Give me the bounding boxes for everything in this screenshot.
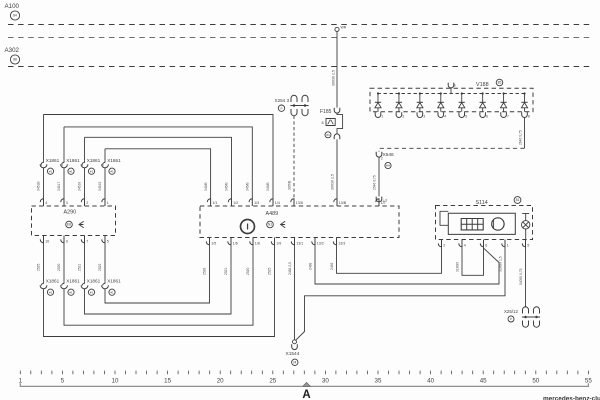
svg-text:#1: #1 [49, 169, 53, 173]
svg-text:#1: #1 [69, 169, 73, 173]
pin 13/1 bottom of A489 [291, 238, 294, 245]
svg-text:#1: #1 [110, 290, 114, 294]
bus wire A100 line 2 [8, 37, 591, 39]
connector X254/3 pair 1 [291, 95, 297, 102]
wire from S114 pin 4 to X1544 [296, 246, 505, 341]
switch S114 rotary symbol [492, 218, 504, 230]
svg-text:8: 8 [454, 83, 456, 87]
svg-text:2498: 2498 [309, 262, 313, 270]
pin 1/4 top of A489 [270, 199, 273, 206]
svg-text:2: 2 [86, 201, 88, 205]
svg-text:A290: A290 [64, 210, 77, 216]
svg-text:1/1: 1/1 [212, 201, 217, 205]
wire 2546 0,75 from X546 to A489 pin L/7 [378, 157, 380, 196]
svg-text:1/4: 1/4 [275, 201, 280, 205]
pin 1/8 bottom of A489 [250, 238, 253, 245]
connector X1861 #4 top row symbol circle [109, 168, 115, 174]
svg-text:45: 45 [480, 378, 487, 385]
svg-text:F185: F185 [320, 109, 332, 115]
svg-text:2646 0,75: 2646 0,75 [519, 130, 523, 145]
wire 2489 from A489 pin 13/3 to S114 pin 1 [337, 245, 442, 273]
diode block V188 pin 8 stub up [448, 83, 454, 88]
diode V188 element 3 [419, 92, 421, 94]
wire 2488 2,5 from A489 pin 13/1 to X1544 [294, 245, 296, 340]
svg-text:9: 9 [66, 239, 68, 243]
control unit A290 branch arrow [79, 221, 84, 227]
pin 2 bottom of S114 [438, 240, 441, 247]
svg-text:31M90: 31M90 [456, 262, 460, 272]
switch S114 box [436, 206, 533, 240]
pin 13/2 bottom of A489 [312, 238, 315, 245]
diode V188 pin hook 7 [501, 112, 507, 117]
pin 5 bottom of A290 [102, 236, 105, 243]
svg-text:13/3: 13/3 [338, 241, 345, 245]
svg-text:1: 1 [381, 115, 383, 119]
pin 6 bottom of S114 [480, 240, 483, 247]
svg-text:5: 5 [527, 243, 529, 247]
wire 54050 0,75 from S114 pin 5 to X25/12 [525, 246, 527, 308]
svg-text:13/B: 13/B [339, 201, 347, 205]
svg-text:X1861: X1861 [87, 158, 101, 163]
svg-text:10: 10 [45, 239, 49, 243]
pin 1/6 bottom of A489 [228, 238, 231, 245]
wire from A290 pin 7 to X1861 bottom row 3 [84, 243, 86, 282]
connector X1861 #4 bottom row symbol circle [109, 289, 115, 295]
pin 1/2 top of A489 [228, 199, 231, 206]
svg-text:5: 5 [107, 239, 109, 243]
wire bridge S114 pin 2 to pin 3 [462, 246, 484, 276]
svg-text:X1861: X1861 [66, 278, 80, 283]
svg-text:mercedes-benz-club.com: mercedes-benz-club.com [543, 396, 600, 400]
control unit A290 symbol circle [66, 221, 73, 228]
diode V188 pin hook 5 [459, 112, 465, 117]
pin 13/B top of A489 [334, 199, 337, 206]
connector X254/3 pair 2 [302, 95, 308, 102]
svg-text:7: 7 [86, 239, 88, 243]
fuse F185 body [326, 119, 335, 126]
bus wire A100 line 1 [8, 24, 591, 26]
diode V188 pin hook 4 [438, 112, 444, 117]
svg-text:2546 0,75: 2546 0,75 [373, 175, 377, 190]
wire joining X25/12 pairs [526, 316, 537, 318]
svg-text:50: 50 [532, 378, 539, 385]
svg-text:1/5: 1/5 [211, 241, 216, 245]
control unit A489 box [200, 206, 399, 238]
svg-text:X1861: X1861 [46, 158, 60, 163]
svg-text:2: 2 [402, 115, 404, 119]
control unit A290 box [32, 206, 116, 236]
ruler scale [20, 371, 588, 375]
diode V188 element 4 [440, 92, 442, 94]
svg-text:L/7: L/7 [381, 201, 386, 205]
wire from A290 pin 5 to X1861 bottom row 4 [104, 243, 106, 282]
control unit A489 symbol circle [267, 221, 274, 228]
pin 4 top of A290 [40, 199, 43, 206]
svg-text:10: 10 [112, 378, 119, 385]
svg-text:N1: N1 [268, 223, 272, 227]
svg-text:1/6: 1/6 [233, 241, 238, 245]
pin 1/5 bottom of A489 [206, 238, 209, 245]
svg-text:M4: M4 [386, 164, 390, 168]
svg-text:1/2: 1/2 [233, 201, 238, 205]
svg-text:2528: 2528 [203, 267, 207, 275]
fuse F185 symbol circle [325, 132, 331, 138]
svg-text:88: 88 [13, 58, 17, 62]
fuse F185 terminal bracket [337, 113, 343, 133]
pin 1 top of A290 [102, 199, 105, 206]
svg-text:4: 4 [444, 115, 446, 119]
svg-text:5: 5 [61, 378, 65, 385]
diode block V188 box [370, 88, 533, 111]
svg-text:A302: A302 [5, 47, 20, 54]
svg-text:X1861: X1861 [107, 158, 121, 163]
diode V188 element 2 [398, 92, 400, 94]
svg-text:A489: A489 [266, 211, 279, 217]
svg-text:2521: 2521 [78, 263, 82, 271]
node tap on circuit 30 bus [335, 27, 339, 31]
svg-text:X1861: X1861 [107, 278, 121, 283]
svg-text:#1: #1 [49, 290, 53, 294]
svg-text:84: 84 [13, 14, 17, 18]
connector X1861 #1 bottom row symbol circle [47, 289, 53, 295]
pin 1/3 top of A489 [249, 199, 252, 206]
svg-text:1/3: 1/3 [254, 201, 259, 205]
connector X1544 symbol circle [292, 359, 298, 365]
wire from A290 pin 9 to X1861 bottom row 2 [63, 243, 65, 282]
svg-text:2525: 2525 [37, 263, 41, 271]
wire 2498 from A489 pin 13/2 to S114 pin 3 [315, 245, 499, 284]
connector X254/3 symbol circle [278, 105, 284, 111]
svg-text:#1: #1 [69, 290, 73, 294]
svg-text:2522: 2522 [98, 263, 102, 271]
svg-text:2488 2,5: 2488 2,5 [288, 262, 292, 275]
svg-text:34518: 34518 [78, 182, 82, 191]
connector X1544 [292, 344, 298, 349]
svg-text:15: 15 [164, 378, 171, 385]
svg-text:1/8: 1/8 [255, 241, 260, 245]
connector X25/12 symbol circle [508, 316, 514, 322]
diode V188 pin hook 1 [375, 112, 381, 117]
lamp symbol in S114 [522, 213, 529, 215]
svg-text:A100: A100 [5, 3, 20, 10]
wire 34515 into A290 pin 1 [104, 169, 106, 199]
switch S114 symbol circle [514, 197, 521, 204]
svg-text:6: 6 [486, 115, 488, 119]
wire loop top 3 (A290 pin 2 to A489 pin 1/2) [84, 137, 86, 161]
svg-text:I: I [246, 222, 248, 232]
pin 1/1 top of A489 [207, 199, 210, 206]
pin 4 bottom of S114 [459, 240, 462, 247]
svg-text:X1861: X1861 [46, 278, 60, 283]
wire 30030 2,5 from fuse F185 to A489 pin 13/B [336, 139, 338, 198]
svg-text:#1: #1 [110, 169, 114, 173]
wire from A290 pin 10 to X1861 bottom row 1 [43, 243, 45, 282]
wire dashed link V188 to X546 [379, 148, 525, 151]
diode V188 pin hook 2 [396, 112, 402, 117]
connector X546 symbol circle [385, 162, 391, 168]
svg-text:2530: 2530 [57, 263, 61, 271]
svg-text:305/B: 305/B [288, 180, 292, 190]
svg-text:1: 1 [107, 201, 109, 205]
svg-text:1: 1 [507, 243, 509, 247]
pin 5 bottom of S114 [522, 240, 525, 247]
diode V188 pin hook 6 [480, 112, 486, 117]
svg-text:X546: X546 [383, 152, 395, 158]
svg-text:34517: 34517 [57, 182, 61, 191]
connector X1861 #2 top row symbol circle [68, 168, 74, 174]
wire loop top 4 (A290 pin 1 to A489 pin 1/1) [104, 149, 106, 161]
svg-text:85: 85 [498, 81, 502, 85]
pin 7 bottom of A290 [81, 236, 84, 243]
svg-text:13/8: 13/8 [296, 201, 303, 205]
svg-text:345/B: 345/B [266, 182, 270, 191]
connector X25/12 pair 1 [523, 307, 529, 314]
ruler marker A notch [303, 382, 310, 386]
wire joining X254/3 pairs [294, 105, 305, 107]
svg-text:2520: 2520 [246, 267, 250, 275]
svg-text:35: 35 [375, 378, 382, 385]
node A100 symbol [10, 11, 19, 20]
bus wire A302 line [8, 66, 591, 68]
pin 10 bottom of A290 [40, 236, 43, 243]
control unit A489 branch arrow [281, 221, 286, 227]
connector X1861 #3 top row symbol circle [88, 168, 94, 174]
svg-text:30: 30 [322, 378, 329, 385]
svg-text:84: 84 [326, 133, 330, 137]
switch S114 keypad symbol [461, 219, 483, 230]
pin 1/9 bottom of A489 [271, 238, 274, 245]
pin L/7 top of A489 [376, 199, 379, 206]
connector X546 [376, 152, 382, 157]
svg-text:20: 20 [217, 378, 224, 385]
diode V188 element 8 [523, 92, 525, 94]
connector hook above fuse F185 [334, 108, 340, 113]
svg-text:E8: E8 [67, 223, 71, 227]
diode V188 element 6 [482, 92, 484, 94]
svg-text:2: 2 [443, 243, 445, 247]
wire 2646 0,75 from V188 pin 8 [524, 118, 526, 149]
svg-text:WR: WR [341, 26, 347, 30]
svg-text:P: P [510, 317, 512, 321]
pin 13/3 bottom of A489 [333, 238, 336, 245]
svg-text:40: 40 [427, 378, 434, 385]
svg-text:3451B: 3451B [37, 181, 41, 191]
svg-text:345/B: 345/B [246, 182, 250, 191]
svg-text:13/2: 13/2 [317, 241, 324, 245]
svg-text:S114: S114 [476, 200, 488, 206]
svg-text:1/9: 1/9 [276, 241, 281, 245]
wire 34518 into A290 pin 2 [84, 169, 86, 199]
diode V188 element 7 [502, 92, 504, 94]
switch S114 body [448, 213, 515, 234]
svg-text:X25/12: X25/12 [504, 309, 518, 314]
wire loop bottom 3 to A489 pin 1/6 [85, 245, 232, 314]
diode V188 pin hook 3 [417, 112, 423, 117]
wire 30030 2,5 from bus to fuse F185 [336, 32, 338, 108]
svg-text:54050 0,75: 54050 0,75 [519, 268, 523, 285]
svg-text:X1861: X1861 [87, 278, 101, 283]
svg-text:30030 2,5: 30030 2,5 [331, 174, 335, 190]
svg-text:30030 2,5: 30030 2,5 [332, 70, 336, 86]
wire 34517 into A290 pin 3 [63, 169, 65, 199]
svg-text:#1: #1 [90, 169, 94, 173]
svg-text:2: 2 [381, 157, 383, 161]
connector X1861 #1 top row symbol circle [47, 168, 53, 174]
wire loop top 2 (A290 pin 3 to A489 pin 1/3) [63, 127, 65, 161]
connector X25/12 pair 2 [534, 307, 540, 314]
control unit A489 variant circle I [241, 220, 255, 234]
ruler baseline [20, 383, 588, 386]
svg-text:25: 25 [269, 378, 276, 385]
svg-text:5: 5 [465, 115, 467, 119]
diode block V188 internal bus [378, 93, 525, 95]
svg-text:345/B: 345/B [204, 182, 208, 191]
pin 13/8 top of A489 [291, 199, 294, 206]
pin 9 bottom of A290 [61, 236, 64, 243]
svg-text:3: 3 [423, 115, 425, 119]
svg-text:X254 3: X254 3 [275, 98, 290, 103]
svg-text:X1544: X1544 [286, 351, 300, 357]
wire loop top 1 (A290 pin 4 to A489 pin 1/4) [43, 115, 45, 161]
svg-text:81: 81 [516, 198, 520, 202]
svg-text:P: P [280, 106, 282, 110]
wire loop bottom 2 to A489 pin 1/8 [64, 245, 253, 325]
svg-text:345/B: 345/B [225, 182, 229, 191]
connector X1861 #2 bottom row symbol circle [68, 289, 74, 295]
svg-text:A: A [302, 389, 310, 400]
pin 1 bottom of S114 [502, 240, 505, 247]
wire 3451B into A290 pin 4 [43, 169, 45, 199]
svg-text:34515: 34515 [98, 182, 102, 191]
diode V188 element 5 [461, 92, 463, 94]
svg-text:4: 4 [464, 243, 466, 247]
svg-text:4: 4 [45, 201, 47, 205]
connector L/7 on wire [376, 197, 382, 202]
svg-text:13/1: 13/1 [296, 241, 303, 245]
svg-text:2525: 2525 [268, 267, 272, 275]
wire loop bottom 4 to A489 pin 1/5 [105, 245, 210, 303]
svg-text:7: 7 [507, 115, 509, 119]
diode block V188 symbol circle [496, 79, 503, 86]
svg-text:2489: 2489 [330, 262, 334, 270]
node A302 symbol [10, 55, 19, 64]
svg-text:M: M [293, 361, 296, 365]
connector X1861 #3 bottom row symbol circle [88, 289, 94, 295]
svg-text:8: 8 [322, 121, 324, 125]
pin 2 top of A290 [81, 199, 84, 206]
svg-text:8: 8 [528, 115, 530, 119]
wire dashed from X254/3 to A489 pin 13/8 [293, 116, 295, 199]
svg-text:2521: 2521 [224, 267, 228, 275]
connector hook below fuse F185 [334, 134, 340, 139]
node X1544 junction [293, 340, 297, 344]
svg-text:X1861: X1861 [66, 158, 80, 163]
svg-text:V188: V188 [476, 82, 489, 88]
diode V188 pin hook 8 [522, 112, 528, 117]
wire loop bottom 1 to A489 pin 1/9 [44, 245, 275, 337]
svg-text:6: 6 [485, 243, 487, 247]
svg-text:31M90 1,5: 31M90 1,5 [499, 256, 503, 272]
pin 3 top of A290 [61, 199, 64, 206]
switch S114 actuator bracket [440, 211, 448, 225]
svg-text:3: 3 [66, 201, 68, 205]
diode V188 element 1 [377, 92, 379, 94]
svg-text:#1: #1 [90, 290, 94, 294]
